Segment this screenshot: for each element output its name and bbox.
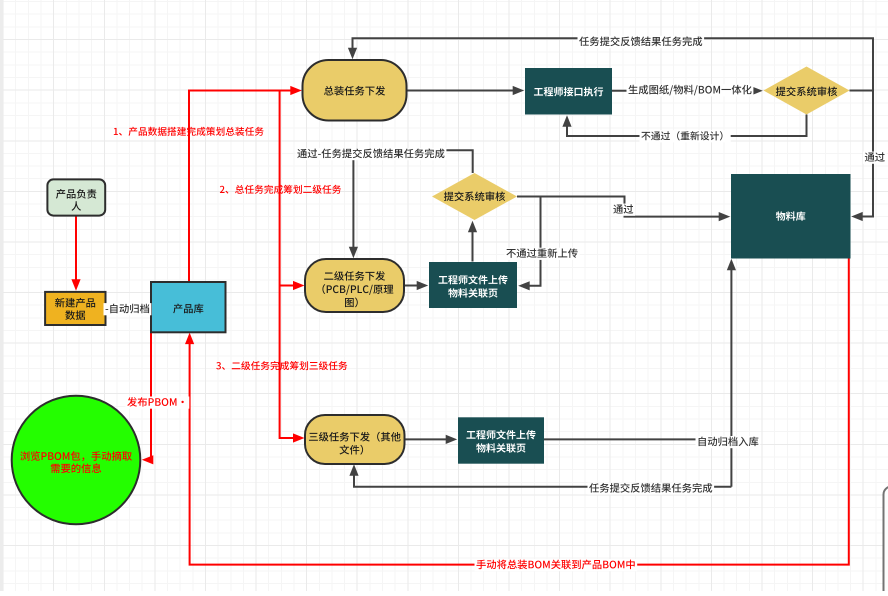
decision 提交系统审核 (middle) bbox=[432, 173, 517, 220]
red wire 产品库 bottom -> 浏览PBOM circle (labelled 发布PBOM) bbox=[148, 332, 152, 460]
node 产品负责人 bbox=[47, 179, 105, 215]
node 总装任务下发 bbox=[303, 60, 407, 121]
wire 总装任务下发 -> 工程师接口执行 bbox=[407, 90, 519, 92]
label 任务提交反馈结果任务完成 (top) bbox=[578, 36, 705, 48]
wire 新建产品数据 -> 产品库 (labelled 自动归档) bbox=[106, 307, 152, 309]
red wire 产品负责人 -> 新建产品数据 bbox=[75, 216, 77, 285]
label 2、总任务完成筹划二级任务 (red) bbox=[220, 185, 341, 194]
wire 通过: diamond U3 -> down right side -> 物料库 right bbox=[857, 91, 873, 217]
label 不通过（重新设计） bbox=[640, 130, 731, 142]
node 工程师文件上传物料关联页 (middle) bbox=[429, 262, 517, 308]
label 3、二级任务完成筹划三级任务 (red) bbox=[216, 361, 347, 370]
label 自动归档入库 bbox=[696, 436, 761, 448]
node 二级任务下发（PCB/PLC/原理图） bbox=[305, 259, 404, 312]
wire bottom-return -> up into 三级任务下发 bottom (labelled 任务提交反馈结果任务完成) bbox=[354, 471, 731, 487]
label 生成图纸/物料/BOM一体化 bbox=[627, 84, 754, 96]
wire 工程师文件上传(bottom) -> right -> up into 物料库 bottom (labelled 自动归档入库) bbox=[544, 265, 731, 487]
node 物料库 bbox=[731, 174, 851, 259]
red wire 产品库 top -> up -> right into 总装任务下发 (labelled 1、产品数据搭建完成策划总装任务) bbox=[189, 91, 296, 283]
label 通过 (middle) bbox=[612, 204, 636, 216]
label 手动将总装BOM关联到产品BOM中 (red) bbox=[475, 559, 638, 571]
label 任务提交反馈结果任务完成 (bottom) bbox=[588, 483, 715, 495]
label 发布PBOM (red) bbox=[126, 397, 190, 409]
label 自动归档 bbox=[104, 303, 152, 315]
node 新建产品数据 bbox=[45, 292, 105, 325]
decision 提交系统审核 (top right) bbox=[764, 67, 850, 115]
node 浏览PBOM包 circle bbox=[12, 396, 141, 525]
wire 不通过重新上传 loop: diamond2 right -> down -> 工程师文件上传(mid) right bbox=[517, 197, 541, 286]
partial shape bottom right corner bbox=[884, 487, 888, 596]
wire 不通过（重新设计） loop: diamond bottom -> 工程师接口执行 bottom bbox=[567, 115, 807, 137]
label 通过 (right) bbox=[863, 152, 887, 164]
wire 三级任务下发 -> 工程师文件上传物料关联页 (bottom) bbox=[405, 438, 452, 440]
label 通过-任务提交反馈结果任务完成 bbox=[296, 148, 447, 160]
node 产品库 bbox=[151, 282, 226, 332]
wire top-return: diamond U3 right -> up -> left -> down into 总装任务下发 top, labelled 任务提交反馈结果任务完成 bbox=[353, 38, 874, 90]
wire 工程师文件上传(mid) top -> diamond2 bottom bbox=[472, 227, 474, 262]
node 工程师接口执行 bbox=[525, 68, 612, 115]
red wire trunk branch -> 二级任务下发 and 三级任务下发 bbox=[280, 91, 299, 439]
label 1、产品数据搭建完成策划总装任务 (red) bbox=[114, 127, 264, 136]
wire 二级任务下发 -> 工程师文件上传物料关联页 (mid) bbox=[404, 285, 422, 287]
red wire 物料库 bottom -> down -> left -> up into 产品库 bottom (labelled 手动将总装BOM关联到产品BOM中) bbox=[190, 258, 849, 565]
wire 工程师接口执行 -> diamond 提交系统审核 (labelled 生成图纸/物料/BOM一体化) bbox=[612, 90, 756, 92]
wire diamond2 top -> up -> left -> down into 二级任务下发 (labelled 通过-任务提交反馈结果任务完成) bbox=[353, 150, 472, 252]
node 三级任务下发（其他文件） bbox=[305, 415, 405, 464]
wire 通过: diamond2 -> 物料库 left bbox=[517, 197, 724, 217]
label 不通过重新上传 bbox=[505, 248, 580, 260]
node 工程师文件上传物料关联页 (bottom) bbox=[458, 417, 544, 463]
